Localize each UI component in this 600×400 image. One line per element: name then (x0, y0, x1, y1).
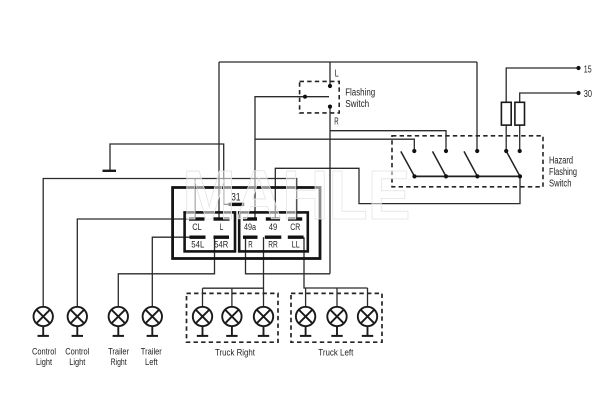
lamp E10 truck left 3 (358, 307, 377, 336)
terminal 54R pin (214, 235, 230, 238)
svg-text:Right: Right (111, 357, 127, 367)
wire terminal L riser (218, 62, 220, 218)
wire terminal 54R to trailer right lamp (118, 237, 214, 307)
wire ground to terminal 31 (110, 144, 230, 204)
wire terminal LL to truck left bus (304, 237, 368, 288)
terminal 31 pin (229, 203, 245, 206)
node terminal 15 (576, 66, 580, 70)
wire truck right lamp 2 stem (231, 288, 233, 307)
ground lamp E5 (197, 335, 208, 337)
svg-text:L: L (335, 68, 339, 79)
wire fuse F2 to hazard contact 5 (519, 125, 521, 151)
terminal 54L pin (190, 235, 206, 238)
wire truck left lamp 2 stem (336, 288, 338, 307)
lamp E7 truck right 3 (254, 307, 273, 336)
ground lamp E3 (113, 335, 124, 337)
wire branch 49a to hazard contact 1 (255, 139, 414, 151)
hazard contact 5 dot (518, 149, 522, 153)
wire tap to terminal CL (194, 179, 196, 219)
svg-text:Truck Right: Truck Right (215, 348, 255, 358)
lamp E4 trailer left (143, 307, 162, 336)
truck right lamp group enclosure (187, 293, 279, 342)
wire terminal 54L to trailer left lamp (152, 237, 190, 307)
ground lamp E2 (72, 335, 83, 337)
wire terminal 15 to fuse F1 (506, 68, 578, 102)
hazard contact 4 dot (504, 149, 508, 153)
ground lamp E1 (38, 335, 49, 337)
svg-text:Switch: Switch (345, 99, 369, 110)
svg-text:Truck Left: Truck Left (318, 348, 353, 358)
wire contact R to hazard contact 2 (330, 131, 446, 151)
terminal LL pin (288, 235, 304, 238)
flashing switch contact L dot (328, 84, 332, 88)
svg-text:Left: Left (145, 357, 158, 367)
ground lamp E6 (226, 335, 237, 337)
svg-text:54R: 54R (214, 240, 228, 250)
wire net 49/L: top bus from terminal L riser to hazard contact 3 (219, 61, 477, 63)
hazard switch lever 4 (506, 151, 520, 176)
terminal R pin (243, 235, 258, 238)
wire terminal R to flashing switch contact R (246, 237, 331, 274)
wire terminal CR to control light 1 (43, 179, 297, 307)
svg-text:Flashing: Flashing (345, 87, 375, 98)
ground lamp E4 (147, 335, 158, 337)
svg-text:Light: Light (36, 357, 52, 367)
relay right contact block (239, 212, 308, 251)
svg-text:Trailer: Trailer (108, 346, 129, 356)
wire truck right lamp 1 stem (202, 288, 204, 307)
svg-text:R: R (248, 240, 253, 250)
hazard switch lever 2 (433, 151, 447, 176)
hazard flashing switch S2 enclosure (392, 136, 543, 187)
wire terminal 49 to hazard switch bottom bar (275, 168, 520, 218)
relay left contact block (185, 212, 235, 251)
svg-text:R: R (334, 116, 338, 127)
hazard switch lever 3 (464, 151, 477, 176)
svg-text:LL: LL (292, 240, 300, 250)
svg-text:MAHLE: MAHLE (183, 156, 411, 234)
svg-text:Control: Control (65, 346, 89, 356)
wire flashing switch contact R drop (329, 107, 331, 274)
ground lamp E10 (362, 335, 373, 337)
hazard bar junction 4 (518, 174, 522, 178)
svg-text:Flashing: Flashing (549, 167, 577, 178)
node terminal 30 (576, 91, 580, 95)
wire fuse F1 to hazard contact 4 (505, 125, 507, 151)
fuse F1 (501, 102, 511, 125)
lamp E5 truck right 1 (193, 307, 212, 336)
hazard bar junction 3 (475, 174, 479, 178)
flashing switch contact R dot (328, 105, 332, 109)
hazard switch lever 1 (401, 151, 415, 176)
hazard contact 1 dot (412, 149, 416, 153)
flashing switch common contact dot (303, 95, 307, 99)
svg-text:15: 15 (584, 64, 592, 76)
hazard bar junction 2 (444, 174, 448, 178)
flashing switch S1 enclosure (300, 81, 340, 113)
terminal CR pin (288, 217, 302, 220)
svg-text:Light: Light (69, 357, 85, 367)
hazard contact 2 dot (444, 149, 448, 153)
lamp E8 truck left 1 (296, 307, 315, 336)
ground lamp E9 (331, 335, 342, 337)
ground (103, 170, 117, 172)
wire truck right bus (203, 287, 264, 289)
wire drop to hazard contact 3 (476, 62, 478, 151)
lamp E6 truck right 2 (222, 307, 241, 336)
svg-text:RR: RR (268, 240, 278, 250)
lamp E1 control light 1 (34, 307, 53, 336)
ground lamp E7 (258, 335, 269, 337)
terminal L pin (214, 217, 230, 220)
wire terminal CL to control light 2 (77, 219, 189, 307)
wire terminal 30 to fuse F2 (520, 93, 579, 102)
wire truck left lamp 1 stem (305, 288, 307, 307)
wire terminal RR to truck right lamp 3 (263, 237, 265, 307)
svg-text:Trailer: Trailer (141, 346, 162, 356)
lamp E2 control light 2 (68, 307, 87, 336)
svg-text:Switch: Switch (549, 179, 572, 190)
svg-text:30: 30 (584, 88, 592, 100)
wire flashing switch common to terminal 49a (255, 97, 305, 218)
svg-text:Control: Control (32, 346, 56, 356)
svg-text:Hazard: Hazard (549, 156, 573, 167)
ground lamp E8 (300, 335, 311, 337)
wire drop to flashing switch contact L (329, 62, 331, 86)
terminal CL pin (189, 217, 205, 220)
terminal 49 pin (266, 217, 280, 220)
truck left lamp group enclosure (291, 293, 382, 342)
fuse F2 (515, 102, 525, 125)
wire truck left lamp 3 stem (367, 288, 369, 307)
lamp E9 truck left 2 (327, 307, 346, 336)
terminal 49a pin (243, 217, 257, 220)
flasher relay unit outer box (173, 188, 320, 259)
hazard switch bottom bar (414, 175, 520, 177)
hazard bar junction 1 (412, 174, 416, 178)
svg-text:54L: 54L (191, 240, 204, 250)
terminal RR pin (265, 235, 282, 238)
hazard contact 3 dot (475, 149, 479, 153)
lamp E3 trailer right (109, 307, 128, 336)
flashing switch lever (305, 96, 329, 98)
